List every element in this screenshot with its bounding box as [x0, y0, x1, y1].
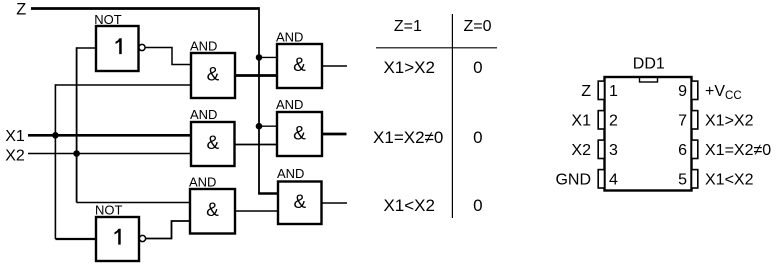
wire junction dot to AND4 — [259, 125, 277, 127]
wire NOT1 output — [145, 48, 191, 65]
NOT2 value 1 — [115, 229, 121, 245]
IC DD1 body — [605, 77, 692, 191]
svg-text:6: 6 — [678, 142, 687, 159]
wire AND2 output X1&gt;X2 — [322, 65, 347, 67]
pin 3 box — [598, 140, 604, 158]
wire X2 to AND5 — [77, 202, 190, 204]
svg-text:+VCC: +VCC — [705, 83, 742, 102]
table horizontal divider — [376, 47, 497, 49]
svg-text:2: 2 — [609, 113, 618, 130]
svg-text:X1>X2: X1>X2 — [383, 58, 435, 77]
svg-text:X1=X2≠0: X1=X2≠0 — [373, 128, 443, 147]
pin 5 box — [692, 170, 698, 188]
pin 7 box — [692, 111, 698, 129]
svg-text:X1<X2: X1<X2 — [383, 196, 435, 215]
svg-text:X1: X1 — [571, 113, 591, 130]
svg-text:DD1: DD1 — [633, 56, 665, 73]
wire X1 to AND1 — [55, 84, 191, 86]
wire Z horizontal — [31, 7, 259, 10]
wire X1 horizontal — [28, 134, 191, 137]
svg-text:4: 4 — [609, 172, 618, 189]
svg-text:&: & — [293, 123, 306, 144]
pin 9 box — [692, 81, 698, 99]
svg-text:AND: AND — [276, 30, 303, 45]
AND gate 2 box — [277, 44, 322, 88]
wire X2 horizontal — [28, 153, 191, 155]
svg-text:Z=1: Z=1 — [394, 18, 422, 35]
svg-text:7: 7 — [678, 113, 687, 130]
svg-text:0: 0 — [473, 58, 482, 77]
NOT gate DD-top box — [96, 26, 139, 71]
svg-text:NOT: NOT — [95, 203, 123, 218]
wire AND5 output — [235, 210, 278, 212]
svg-text:&: & — [293, 55, 306, 76]
svg-text:0: 0 — [473, 128, 482, 147]
svg-text:AND: AND — [190, 39, 217, 54]
svg-text:&: & — [207, 64, 220, 85]
svg-text:1: 1 — [609, 83, 618, 100]
table vertical divider — [451, 14, 453, 218]
AND gate 5 box — [190, 189, 235, 234]
svg-text:0: 0 — [473, 196, 482, 215]
NOT2 inversion bubble — [139, 235, 145, 241]
svg-text:3: 3 — [609, 142, 618, 159]
NOT1 inversion bubble — [139, 44, 145, 50]
svg-text:&: & — [206, 200, 219, 221]
pin 6 box — [692, 140, 698, 158]
NOT gate DD-bottom box — [96, 217, 139, 261]
pin 2 box — [598, 111, 604, 129]
wire AND6 output X1&lt;X2 — [322, 202, 348, 204]
wire AND4 output X1=X2 — [322, 133, 347, 136]
AND gate 3 box — [191, 122, 235, 166]
svg-text:Z=0: Z=0 — [463, 18, 491, 35]
wire X1 to NOT2 — [55, 238, 96, 240]
svg-text:GND: GND — [555, 172, 591, 189]
svg-text:X1<X2: X1<X2 — [705, 172, 754, 189]
svg-text:AND: AND — [277, 166, 304, 181]
junction dot Z/AND4 — [256, 123, 263, 130]
wire NOT2 output — [146, 221, 190, 239]
IC orientation notch — [640, 78, 658, 83]
wire X2 to NOT1 — [77, 47, 96, 49]
AND gate 4 box — [277, 112, 322, 156]
svg-text:X1: X1 — [5, 128, 25, 145]
svg-text:AND: AND — [189, 175, 216, 190]
pin 1 box — [598, 81, 604, 99]
junction dot Z/AND2 — [256, 54, 263, 61]
wire AND3 output — [235, 144, 278, 146]
svg-text:&: & — [293, 192, 306, 213]
svg-text:9: 9 — [678, 83, 687, 100]
pin 4 box — [598, 170, 604, 188]
svg-text:X1>X2: X1>X2 — [705, 113, 754, 130]
wire X1 vertical — [54, 84, 56, 239]
wire X2 vertical — [76, 47, 78, 202]
svg-text:X2: X2 — [5, 147, 25, 164]
junction dot X2 — [73, 150, 80, 157]
svg-text:AND: AND — [190, 107, 217, 122]
wire AND1 output — [235, 74, 277, 77]
svg-text:&: & — [206, 133, 219, 154]
svg-text:X2: X2 — [571, 142, 591, 159]
NOT1 value 1 — [116, 38, 122, 54]
svg-text:AND: AND — [276, 97, 303, 112]
wire junction dot to AND2 — [259, 56, 277, 58]
svg-text:Z: Z — [581, 83, 591, 100]
AND gate 1 box — [191, 53, 235, 98]
AND gate 6 box — [278, 182, 322, 225]
wire Z to AND6 — [258, 192, 278, 195]
junction dot X1 — [52, 132, 59, 139]
svg-text:5: 5 — [678, 172, 687, 189]
svg-text:Z: Z — [16, 1, 26, 19]
svg-text:X1=X2≠0: X1=X2≠0 — [705, 142, 771, 159]
wire Z vertical bus — [258, 7, 260, 193]
